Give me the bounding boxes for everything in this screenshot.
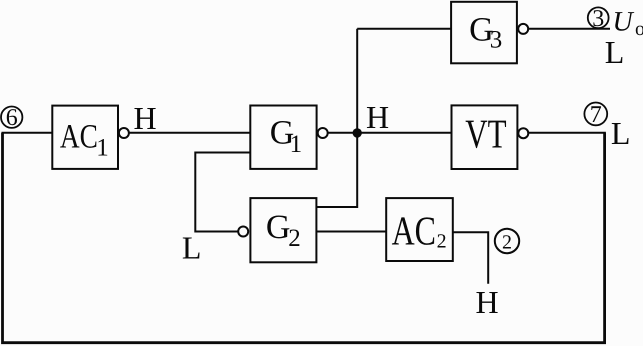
svg-text:AC: AC [392, 207, 436, 253]
block G2 [250, 198, 316, 262]
svg-text:L: L [605, 34, 625, 70]
wire AC2 output to node 2 stub [453, 232, 488, 283]
svg-text:U: U [613, 7, 635, 38]
wire feedback loop (left, bottom, right) [3, 133, 605, 343]
svg-text:1: 1 [290, 131, 303, 158]
wire G3 output [528, 28, 610, 30]
svg-text:2: 2 [502, 232, 512, 254]
wire junction vertical up to G3 row and down to G2 right side [316, 29, 357, 207]
wire AC1 to G1 [129, 132, 250, 134]
junction dot [353, 128, 362, 137]
svg-text:VT: VT [465, 111, 506, 157]
wire G2 output to AC2 [316, 231, 386, 233]
node 2 terminal circle [495, 229, 519, 254]
svg-text:H: H [366, 99, 389, 135]
node 3 terminal circle [588, 6, 609, 32]
svg-text:3: 3 [592, 6, 604, 32]
node 6 terminal circle [1, 105, 22, 131]
svg-text:G: G [266, 209, 291, 246]
svg-text:L: L [182, 230, 202, 266]
wire to G3 input [357, 28, 451, 30]
block AC1 [52, 106, 118, 169]
wire VT output to right corner [528, 132, 606, 134]
block G3 [451, 2, 517, 64]
wire G1 output to VT input [328, 132, 452, 134]
wire input to AC1 [2, 132, 53, 134]
bubble AC1 output [119, 128, 129, 138]
svg-text:6: 6 [6, 105, 18, 131]
block G1 [250, 106, 316, 169]
svg-text:L: L [611, 115, 631, 151]
bubble G1 output [318, 128, 328, 138]
bubble G3 output [518, 24, 528, 34]
svg-text:7: 7 [590, 102, 602, 128]
svg-text:3: 3 [490, 26, 503, 53]
bubble VT output [518, 128, 528, 138]
node 7 terminal circle [584, 102, 607, 128]
block AC2 [386, 198, 453, 261]
svg-text:1: 1 [96, 135, 109, 162]
svg-text:o: o [635, 18, 643, 40]
bubble G2 input [238, 227, 248, 237]
svg-text:H: H [475, 284, 498, 320]
svg-text:2: 2 [437, 230, 447, 252]
wire G1 lower input to G2 input [195, 153, 250, 232]
svg-text:H: H [134, 100, 157, 136]
svg-text:AC: AC [60, 119, 98, 156]
block VT [452, 105, 518, 169]
label Uo [613, 7, 643, 41]
svg-text:2: 2 [288, 225, 301, 252]
